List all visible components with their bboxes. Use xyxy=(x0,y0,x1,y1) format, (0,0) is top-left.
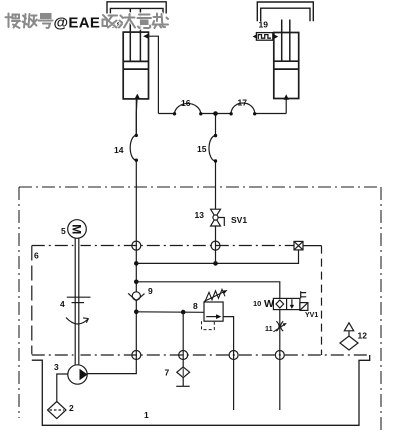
bulkhead port circle on line 15 xyxy=(211,241,220,250)
relief valve 8 body xyxy=(204,302,223,321)
return pipe to filter 7 xyxy=(182,312,184,367)
svg-text:7: 7 xyxy=(165,368,170,378)
motor shaft (double line) xyxy=(75,238,79,365)
svg-text:14: 14 xyxy=(114,145,124,155)
damper orifice on cylinder 19 rod port xyxy=(256,33,272,41)
throttle valve 11 xyxy=(273,321,286,332)
coupling 4 xyxy=(67,297,91,302)
bulkhead port circle relief return xyxy=(229,351,238,360)
manifold box 6 top dashed line xyxy=(32,245,294,247)
test point coupling (crossed square) xyxy=(294,241,303,250)
rotation direction arrow xyxy=(66,318,89,325)
svg-text:9: 9 xyxy=(148,286,153,296)
valve 10 outlet pipe xyxy=(279,310,281,410)
pipe from header to cylinder 18 rod port xyxy=(149,36,159,113)
junction node line15/line263 xyxy=(213,261,218,266)
svg-text:10: 10 xyxy=(253,299,261,308)
svg-text:8: 8 xyxy=(193,301,198,311)
junction node header/line15 xyxy=(213,111,218,116)
pump suction pipe xyxy=(57,374,68,402)
svg-text:2: 2 xyxy=(69,403,74,413)
bulkhead port circle on line 14 at tank top xyxy=(132,351,141,360)
svg-text:6: 6 xyxy=(34,251,39,261)
svg-text:16: 16 xyxy=(181,98,191,108)
branch pipe y282 to valve 10 xyxy=(136,282,279,299)
damper arrow right into cylinder 19 xyxy=(273,34,279,40)
cylinder 19 body xyxy=(274,33,299,99)
svg-text:@EAE: @EAE xyxy=(54,14,101,31)
valve 10 solenoid xyxy=(300,291,308,310)
svg-text:19: 19 xyxy=(259,20,269,30)
white mask behind motor shaft over dashed lines xyxy=(74,240,81,360)
flow arrow into cylinder 18 rod port xyxy=(143,34,148,39)
relief valve 8 pilot dashed loop xyxy=(202,321,215,329)
pipe below cylinder 18 xyxy=(135,99,138,135)
svg-text:M: M xyxy=(70,224,84,234)
tank top dash-dot line xyxy=(32,354,370,356)
svg-text:12: 12 xyxy=(358,331,368,341)
solenoid cartridge valve 10 xyxy=(273,298,300,309)
svg-text:YV1: YV1 xyxy=(305,312,318,319)
hose 16 xyxy=(173,103,203,115)
hose 17 xyxy=(229,103,256,115)
svg-text:11: 11 xyxy=(265,324,273,333)
junction node to filter 7 xyxy=(181,310,186,315)
air breather filter 12 xyxy=(340,323,358,350)
enclosure border (hydraulic power unit, dash-dot) xyxy=(19,187,381,433)
pressure line column x=136.3 (pump to cylinder 18) xyxy=(135,99,137,355)
watermark 搜狐号@EAE咬沃意特 (vector strokes) xyxy=(6,14,169,32)
relief valve outlet pipe to tank xyxy=(223,317,234,410)
relief valve 8 adjust arrow xyxy=(204,290,228,302)
svg-text:4: 4 xyxy=(60,299,65,309)
filter 7 xyxy=(176,367,190,386)
damper arrow left xyxy=(253,35,257,39)
branch pipe y312 to relief valve 8 xyxy=(136,311,204,314)
check valve 9 xyxy=(128,292,144,301)
svg-text:15: 15 xyxy=(197,144,207,154)
svg-text:17: 17 xyxy=(238,98,248,108)
rod-side header pipe y=113.5 xyxy=(158,113,286,115)
svg-text:13: 13 xyxy=(195,210,205,220)
shut-off solenoid valve 13 SV1 xyxy=(211,209,225,226)
drain line from test point (dashed, right edge of box 6) xyxy=(303,245,322,247)
junction node at y263 xyxy=(134,261,139,266)
pipe from header to cylinder 19 cap port xyxy=(285,99,287,114)
motor M5 xyxy=(68,220,87,239)
suction strainer 2 xyxy=(48,402,67,419)
svg-text:1: 1 xyxy=(144,410,149,420)
cylinder 18 rod xyxy=(130,9,140,62)
bulkhead port circle filter 7 line xyxy=(179,351,188,360)
bulkhead port circle valve 10 return xyxy=(275,351,284,360)
svg-text:W: W xyxy=(264,298,274,310)
cylinder 18 body xyxy=(123,32,148,99)
cylinder 18 mounting bracket xyxy=(107,2,166,14)
cylinder 19 rod xyxy=(282,20,290,62)
hose 14 xyxy=(130,134,138,162)
pump 3 xyxy=(68,365,88,384)
junction node at y282 xyxy=(134,280,139,285)
bulkhead port circle on line 14 at manifold top xyxy=(132,241,141,250)
svg-text:SV1: SV1 xyxy=(231,215,247,225)
junction node at y312 xyxy=(134,310,139,315)
relief valve 8 spring xyxy=(205,289,225,301)
hose 15 xyxy=(209,134,217,163)
branch pipe y263 to test point xyxy=(136,250,298,264)
tank 1 outline xyxy=(32,355,370,425)
line 15 column x=215.5 xyxy=(215,114,217,264)
pump discharge pipe to column 14 xyxy=(87,355,136,374)
manifold box 6 left dashed edge xyxy=(31,246,33,355)
svg-text:3: 3 xyxy=(54,362,59,372)
flow arrow into cylinder 18 cap xyxy=(135,94,141,99)
svg-text:5: 5 xyxy=(61,226,66,236)
cylinder 19 mounting bracket xyxy=(257,2,313,21)
flow arrow into cylinder 19 cap port xyxy=(284,94,289,99)
